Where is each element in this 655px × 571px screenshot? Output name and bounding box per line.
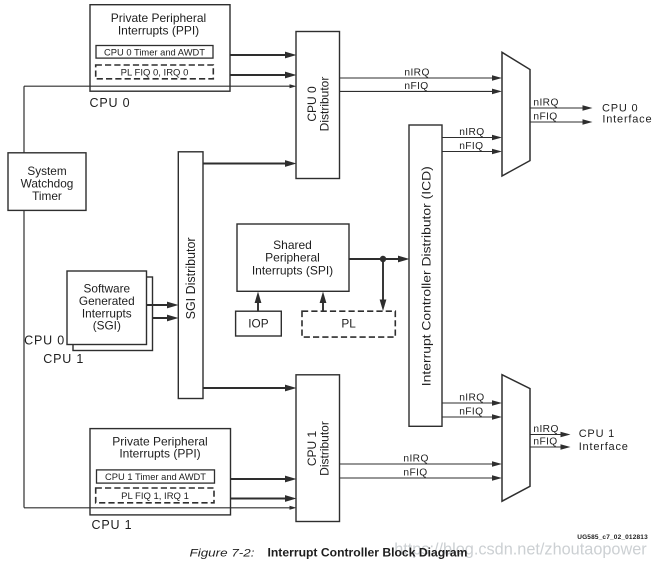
svg-text:PL FIQ 0, IRQ 0: PL FIQ 0, IRQ 0 bbox=[121, 68, 189, 79]
svg-text:CPU 1: CPU 1 bbox=[92, 518, 133, 532]
svg-text:nIRQ: nIRQ bbox=[403, 454, 428, 465]
svg-text:CPU 0: CPU 0 bbox=[90, 96, 131, 110]
svg-text:nFIQ: nFIQ bbox=[533, 112, 557, 123]
svg-text:nFIQ: nFIQ bbox=[403, 468, 427, 479]
svg-text:Interrupt Controller Distribut: Interrupt Controller Distributor (ICD) bbox=[422, 166, 434, 386]
svg-text:nIRQ: nIRQ bbox=[459, 393, 484, 404]
svg-text:Interrupts (SPI): Interrupts (SPI) bbox=[252, 263, 333, 277]
svg-text:nIRQ: nIRQ bbox=[459, 127, 484, 138]
svg-text:CPU 1 Timer and AWDT: CPU 1 Timer and AWDT bbox=[105, 472, 206, 483]
svg-text:CPU 1: CPU 1 bbox=[43, 352, 84, 366]
svg-text:nFIQ: nFIQ bbox=[533, 437, 557, 448]
svg-text:SGI Distributor: SGI Distributor bbox=[184, 237, 198, 319]
svg-text:(SGI): (SGI) bbox=[93, 319, 121, 333]
svg-text:nIRQ: nIRQ bbox=[533, 98, 558, 109]
svg-text:Interrupts (PPI): Interrupts (PPI) bbox=[119, 446, 200, 460]
svg-text:Interface: Interface bbox=[579, 441, 629, 453]
svg-text:nIRQ: nIRQ bbox=[533, 424, 558, 435]
svg-text:CPU 0 Timer and AWDT: CPU 0 Timer and AWDT bbox=[104, 47, 205, 58]
svg-text:PL: PL bbox=[341, 317, 356, 331]
svg-text:Interface: Interface bbox=[602, 114, 652, 126]
svg-text:CPU 0: CPU 0 bbox=[24, 334, 65, 348]
svg-text:IOP: IOP bbox=[248, 317, 268, 331]
svg-text:nFIQ: nFIQ bbox=[404, 81, 428, 92]
svg-text:nFIQ: nFIQ bbox=[459, 141, 483, 152]
svg-text:CPU 1: CPU 1 bbox=[579, 428, 615, 440]
svg-text:PL FIQ 1, IRQ 1: PL FIQ 1, IRQ 1 bbox=[121, 491, 189, 502]
svg-text:Interrupt Controller Block Dia: Interrupt Controller Block Diagram bbox=[268, 546, 468, 560]
svg-text:Interrupts (PPI): Interrupts (PPI) bbox=[118, 24, 199, 38]
svg-text:nFIQ: nFIQ bbox=[459, 407, 483, 418]
svg-text:Timer: Timer bbox=[32, 189, 62, 203]
svg-text:Figure 7-2:: Figure 7-2: bbox=[190, 548, 255, 560]
svg-text:nIRQ: nIRQ bbox=[404, 68, 429, 79]
